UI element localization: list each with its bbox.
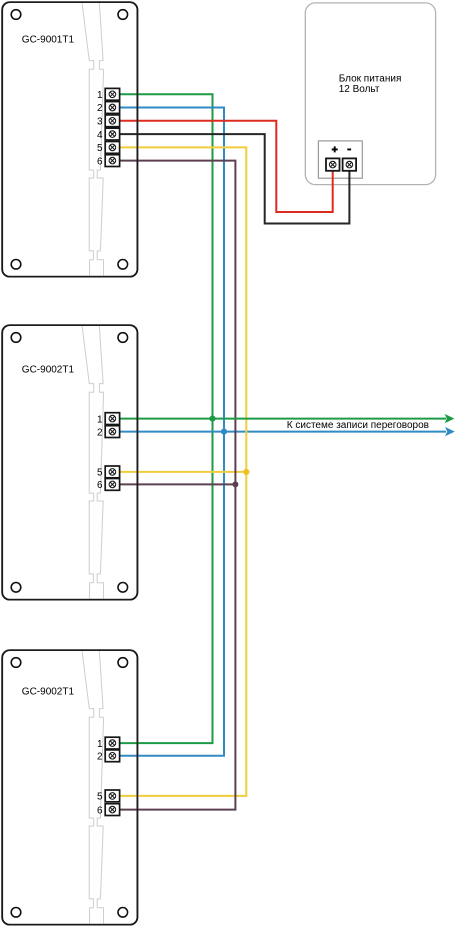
svg-text:2: 2 [97, 103, 103, 114]
svg-text:12 Вольт: 12 Вольт [339, 84, 380, 95]
PSU minus label [347, 149, 351, 151]
svg-text:2: 2 [97, 427, 103, 438]
power supply unit body [305, 3, 435, 185]
arrow green [445, 414, 455, 423]
wire maroon: panel2 pin6 stub [114, 483, 235, 485]
panel2 pin numbers [97, 414, 103, 491]
wire yellow: panel1 pin5 bus to panel3 pin5 [114, 147, 246, 796]
wire green: panel2 pin1 to recording system [114, 418, 446, 420]
wire black: panel1 pin4 to PSU minus [114, 134, 349, 223]
svg-text:3: 3 [97, 117, 103, 128]
panel3 terminal block pins 1,2,5,6 [105, 737, 119, 815]
svg-text:5: 5 [97, 468, 103, 479]
junction dot blue [221, 429, 227, 435]
wire blue: panel2 pin2 to recording system [114, 431, 446, 433]
svg-text:1: 1 [97, 739, 103, 750]
arrow blue [445, 427, 455, 436]
svg-text:5: 5 [97, 143, 103, 154]
PSU label: Блок питания 12 Вольт [339, 74, 402, 96]
wire yellow: panel2 pin5 stub [114, 471, 246, 473]
svg-text:1: 1 [97, 414, 103, 425]
svg-text:4: 4 [97, 130, 103, 141]
PSU screw terminal plus [326, 158, 340, 170]
svg-text:6: 6 [97, 156, 103, 167]
panel1 pin numbers [97, 90, 103, 167]
wire maroon: panel1 pin6 bus to panel3 pin6 [114, 161, 235, 810]
PSU plus label [332, 146, 338, 152]
svg-text:GC-9001T1: GC-9001T1 [22, 35, 75, 46]
junction dot maroon [232, 481, 238, 487]
junction dot yellow [243, 469, 249, 475]
PSU screw terminal minus [343, 158, 357, 170]
svg-text:Блок питания: Блок питания [339, 74, 402, 85]
wire blue: panel1 pin2 bus to panel3 pin2 [114, 108, 224, 756]
panel2 terminal block pins 1,2,5,6 [105, 413, 119, 491]
panel border restrokes over wires [2, 2, 137, 925]
svg-text:1: 1 [97, 90, 103, 101]
wire green: panel1 pin1 bus to panel3 pin1 [114, 94, 213, 743]
svg-text:6: 6 [97, 480, 103, 491]
label GC-9001T1 [22, 35, 75, 46]
intercom panel GC-9002T1 (middle) [2, 325, 137, 600]
junction dot green [209, 416, 215, 422]
panel3 pin numbers [97, 739, 103, 817]
label GC-9002T1 bottom [22, 686, 75, 697]
svg-text:GC-9002T1: GC-9002T1 [22, 686, 75, 697]
svg-text:6: 6 [97, 805, 103, 816]
label: К системе записи переговоров [287, 420, 429, 431]
panel1 terminal block pins 1-6 [105, 88, 119, 166]
intercom panel GC-9002T1 (bottom) [2, 650, 137, 925]
svg-text:5: 5 [97, 792, 103, 803]
label GC-9002T1 middle [22, 364, 75, 375]
intercom panel GC-9001T1 [2, 2, 137, 277]
svg-text:К системе записи переговоров: К системе записи переговоров [287, 420, 429, 431]
wire red: panel1 pin3 to PSU plus [114, 121, 333, 212]
PSU terminal box [318, 141, 362, 178]
svg-text:2: 2 [97, 752, 103, 763]
svg-text:GC-9002T1: GC-9002T1 [22, 364, 75, 375]
